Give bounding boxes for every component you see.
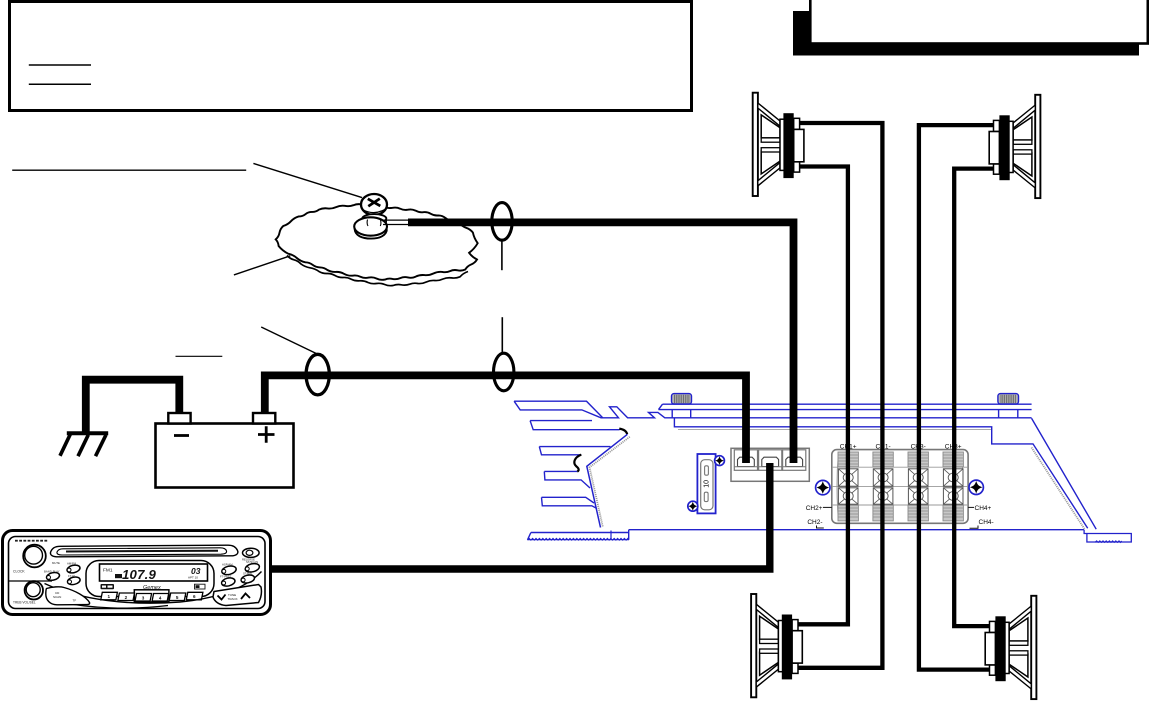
battery terminal positive bbox=[253, 413, 275, 424]
leader line to mounting screw (horizontal part) bbox=[12, 169, 246, 171]
screw left of terminal block bbox=[816, 480, 830, 494]
battery minus sign bbox=[174, 434, 189, 437]
svg-text:03: 03 bbox=[191, 566, 201, 576]
amplifier heatsink fin 1 bbox=[514, 401, 603, 418]
radio model text bbox=[15, 540, 47, 542]
button FT bbox=[67, 576, 81, 586]
terminal screw col 3 row 1 bbox=[908, 469, 928, 486]
speaker cone lower strut bbox=[758, 163, 780, 186]
svg-text:2: 2 bbox=[125, 595, 128, 600]
radio lower knob bbox=[25, 581, 43, 599]
CD SCAN button bbox=[46, 587, 90, 605]
loop connector line lower bbox=[501, 317, 503, 353]
svg-text:AM/FM: AM/FM bbox=[67, 562, 77, 566]
speaker terminal tab lower bbox=[792, 663, 798, 673]
speaker magnet bbox=[782, 615, 792, 680]
power terminal slot 2 bbox=[759, 450, 782, 471]
fuse holder inner bbox=[701, 460, 713, 510]
speaker terminal tab lower bbox=[994, 164, 1000, 174]
speaker spider bar upper bbox=[1009, 641, 1028, 645]
speaker cone lower section bbox=[1013, 153, 1032, 176]
radio outer faceplate bbox=[3, 531, 271, 615]
remote turn-on wire (radio to amp) bbox=[270, 463, 770, 569]
terminal column 3 spring pads bbox=[908, 452, 928, 467]
speaker cone lower section bbox=[760, 652, 779, 675]
speaker spider bar lower bbox=[761, 148, 780, 152]
power terminal slot 1 bbox=[734, 450, 757, 471]
battery negative wire to ground bbox=[86, 380, 180, 434]
battery body bbox=[156, 424, 294, 488]
heatsink base inner notch bbox=[610, 531, 612, 540]
speaker wire CH1 column (front-left speaker pair) bbox=[798, 167, 848, 625]
preset buttons 3-4 group bbox=[134, 590, 169, 602]
svg-text:CH2+: CH2+ bbox=[806, 505, 823, 512]
speaker cone upper section bbox=[760, 616, 779, 639]
amplifier heatsink spine bbox=[587, 434, 628, 527]
speaker magnet bbox=[783, 113, 793, 178]
ground wire open end (outline) bbox=[383, 220, 409, 224]
preset button 5 bbox=[169, 593, 186, 601]
preset button 6 bbox=[186, 592, 203, 600]
speaker spider bar lower bbox=[1013, 150, 1032, 154]
terminal screw col 1 row 2 bbox=[838, 488, 858, 504]
svg-text:CH2-: CH2- bbox=[807, 519, 822, 526]
speaker cone upper strut bbox=[1009, 606, 1031, 629]
svg-text:SCAN: SCAN bbox=[53, 595, 61, 599]
speaker cone upper strut bbox=[1013, 105, 1035, 128]
svg-text:1: 1 bbox=[108, 594, 111, 599]
terminal screw col 1 row 1 bbox=[838, 469, 858, 486]
svg-text:107.9: 107.9 bbox=[122, 567, 156, 582]
instruction box (top-left) bbox=[10, 2, 692, 111]
svg-text:CH4+: CH4+ bbox=[975, 505, 992, 512]
DRC icon bbox=[195, 584, 206, 589]
title box shadow bbox=[793, 11, 1139, 56]
preset button 3 bbox=[135, 594, 152, 602]
speaker front-right (top-right) bbox=[989, 95, 1040, 198]
amplifier heatsink fin 3 bbox=[539, 447, 610, 455]
preset button 2 bbox=[118, 593, 135, 601]
LCD ST badge bbox=[115, 574, 122, 578]
speaker frame plate bbox=[1009, 121, 1014, 172]
mounting boss right bbox=[998, 394, 1019, 404]
tune-track seek buttons bbox=[213, 585, 261, 606]
terminal screw col 4 row 2 bbox=[943, 488, 963, 504]
svg-text:FT-PAST: FT-PAST bbox=[220, 575, 232, 579]
terminal screw col 3 row 2 bbox=[908, 488, 928, 504]
washer top bbox=[354, 217, 387, 235]
speaker terminal tab upper bbox=[994, 120, 1000, 131]
speaker spider bar upper bbox=[1013, 140, 1032, 144]
screw near fuse bottom-left bbox=[688, 501, 698, 511]
speaker cone upper section bbox=[1013, 117, 1032, 140]
speaker terminal tab lower bbox=[794, 162, 800, 172]
speaker bezel bbox=[1031, 596, 1036, 699]
label CH4+ with leader bbox=[968, 506, 974, 508]
fuse slot top bbox=[705, 466, 709, 475]
speaker rear-right (bottom-right) bbox=[985, 596, 1036, 699]
svg-text:ST/BAL: ST/BAL bbox=[243, 571, 253, 575]
decorative swoosh arc bbox=[45, 572, 262, 604]
screw collar nut bbox=[362, 214, 386, 223]
button SCAN bbox=[244, 562, 260, 573]
svg-text:3: 3 bbox=[142, 595, 145, 600]
speaker bezel bbox=[753, 93, 758, 196]
speaker front-left (top-left) bbox=[753, 93, 804, 196]
svg-text:FM1: FM1 bbox=[103, 568, 113, 574]
battery terminal negative bbox=[168, 413, 190, 424]
display bezel bbox=[86, 561, 214, 597]
svg-text:BAND·PLAY: BAND·PLAY bbox=[44, 570, 60, 574]
svg-text:MUTE: MUTE bbox=[52, 561, 60, 565]
svg-text:ST/SCAN: ST/SCAN bbox=[246, 560, 258, 564]
speaker cone lower strut bbox=[1009, 666, 1031, 689]
speaker frame plate bbox=[1005, 622, 1010, 673]
amplifier heatsink fin 2 bbox=[530, 421, 620, 430]
speaker frame plate bbox=[780, 119, 785, 170]
speaker magnet bbox=[995, 616, 1005, 681]
speaker magnet back box bbox=[792, 631, 802, 663]
chassis plate edge thickness line bbox=[287, 256, 468, 286]
amplifier body outline bbox=[629, 418, 1096, 530]
svg-text:TRACK: TRACK bbox=[228, 597, 238, 601]
radio volume knob bbox=[23, 545, 46, 568]
button BAND/PLAY bbox=[46, 571, 61, 581]
amplifier right foot (serrated) bbox=[1084, 530, 1131, 542]
speaker wire CH3 column bbox=[919, 125, 994, 670]
speaker spider bar upper bbox=[760, 639, 779, 643]
leader line to mounting screw (diagonal part) bbox=[253, 163, 362, 197]
preset button 4 bbox=[152, 594, 169, 602]
button AM/FM bbox=[66, 564, 81, 574]
radio head unit bbox=[3, 531, 271, 615]
svg-text:6: 6 bbox=[193, 594, 196, 599]
wire slack loop on battery wire (near battery) bbox=[306, 354, 329, 395]
fuse holder outer (blue) bbox=[697, 454, 715, 513]
wire slack loop on ground wire bbox=[492, 203, 512, 241]
speaker cone lower section bbox=[761, 151, 780, 174]
terminal screw col 2 row 1 bbox=[873, 469, 893, 486]
svg-text:APT 10: APT 10 bbox=[188, 576, 198, 580]
speaker frame plate bbox=[778, 621, 783, 672]
speaker bezel bbox=[751, 594, 756, 697]
speaker spider bar upper bbox=[761, 138, 780, 142]
speaker cone upper strut bbox=[756, 604, 778, 627]
power terminal slot 3 bbox=[783, 450, 806, 471]
speaker bezel bbox=[1035, 95, 1040, 198]
speaker terminal tab lower bbox=[990, 665, 996, 675]
body top edge shadow bbox=[678, 429, 991, 431]
speaker cone lower section bbox=[1009, 654, 1028, 677]
title box bbox=[810, 0, 1148, 44]
preset button 1 bbox=[101, 592, 118, 600]
mounting boss right legs bbox=[999, 410, 1018, 418]
button ASP bbox=[221, 565, 237, 576]
svg-text:CLOCK: CLOCK bbox=[13, 570, 25, 574]
speaker spider bar lower bbox=[1009, 651, 1028, 655]
speaker rear-left (bottom-left) bbox=[751, 594, 802, 697]
fuse slot bottom bbox=[704, 492, 708, 501]
battery label underline bbox=[176, 355, 223, 357]
radio inner frame bbox=[9, 537, 266, 609]
svg-text:FT-#1: FT-#1 bbox=[68, 574, 76, 578]
loop connector line upper bbox=[501, 241, 503, 270]
button FT-PAST bbox=[221, 577, 236, 588]
speaker terminal tab upper bbox=[794, 118, 800, 129]
svg-text:4: 4 bbox=[159, 595, 162, 600]
LCD display bbox=[100, 564, 208, 581]
speaker terminal tab upper bbox=[792, 620, 798, 631]
speaker cone upper section bbox=[1009, 618, 1028, 641]
mounting boss left legs bbox=[672, 410, 691, 418]
wire slack loop on battery wire (middle) bbox=[494, 353, 514, 391]
speaker magnet back box bbox=[985, 633, 995, 665]
DSP badge bbox=[101, 584, 115, 589]
speaker wire CH2 column bbox=[798, 123, 882, 668]
speaker terminal tab upper bbox=[990, 621, 996, 632]
svg-text:TREB VOL/SEL: TREB VOL/SEL bbox=[13, 601, 36, 605]
radio panel separator bbox=[9, 580, 53, 582]
amplifier heatsink base flange (serrated) bbox=[528, 539, 629, 541]
battery positive power wire bbox=[265, 375, 746, 463]
heatsink black curl 2 bbox=[574, 455, 581, 472]
speaker magnet back box bbox=[794, 129, 804, 161]
speaker terminal block bbox=[832, 450, 968, 524]
terminal screw col 2 row 2 bbox=[873, 488, 893, 504]
svg-text:CH4-: CH4- bbox=[979, 519, 994, 526]
svg-text:TF: TF bbox=[73, 599, 77, 603]
mounting screw head bbox=[361, 194, 387, 215]
leader line to chassis plate bbox=[234, 256, 290, 275]
amplifier mounting flange bbox=[659, 404, 1032, 409]
button ST/BAL bbox=[240, 574, 255, 584]
speaker wire CH4 column bbox=[954, 169, 993, 626]
chassis plate (bare metal spot) bbox=[276, 204, 478, 280]
release button bbox=[243, 548, 260, 557]
mounting boss left bbox=[672, 394, 692, 404]
terminal column 2 spring pads bbox=[873, 452, 893, 467]
speaker magnet back box bbox=[989, 132, 999, 164]
speaker spider bar lower bbox=[760, 649, 779, 653]
screw slot X bbox=[368, 199, 381, 207]
speaker cone lower strut bbox=[756, 664, 778, 687]
amplifier heatsink fin 5 bbox=[542, 497, 598, 508]
amplifier top edge line with notches bbox=[600, 407, 1032, 418]
screw near fuse top-right bbox=[715, 456, 725, 466]
amplifier heatsink fin 4 bbox=[544, 471, 590, 488]
leader line to power wire loop bbox=[261, 327, 317, 354]
battery plus sign bbox=[258, 426, 275, 443]
speaker magnet bbox=[999, 115, 1009, 180]
screw head lower arc bbox=[363, 209, 386, 213]
body right slant hatch bbox=[1032, 448, 1085, 530]
ground power wire (chassis to amp) bbox=[408, 222, 794, 463]
heatsink spine hatch bbox=[590, 437, 630, 527]
screw shank inside washer bbox=[367, 220, 381, 227]
blank underline 1 bbox=[29, 64, 91, 66]
terminal block end curves bbox=[837, 453, 963, 521]
blank underline 2 bbox=[29, 83, 91, 85]
svg-text:5: 5 bbox=[176, 595, 179, 600]
terminal column 1 spring pads bbox=[838, 452, 858, 467]
heatsink black curl 1 bbox=[619, 429, 627, 435]
speaker cone lower strut bbox=[1013, 165, 1035, 188]
speaker cone upper strut bbox=[758, 103, 780, 126]
svg-text:ASP/AM: ASP/AM bbox=[222, 562, 233, 566]
washer bottom rim bbox=[355, 229, 387, 239]
power terminal block bbox=[731, 448, 809, 481]
CD slot bbox=[50, 545, 237, 557]
svg-text:10: 10 bbox=[704, 480, 711, 488]
speaker cone upper section bbox=[761, 115, 780, 138]
terminal column 4 spring pads bbox=[943, 452, 963, 467]
terminal screw col 4 row 1 bbox=[943, 469, 963, 486]
chassis ground symbol bbox=[60, 433, 108, 456]
screw right of terminal block bbox=[969, 480, 983, 494]
